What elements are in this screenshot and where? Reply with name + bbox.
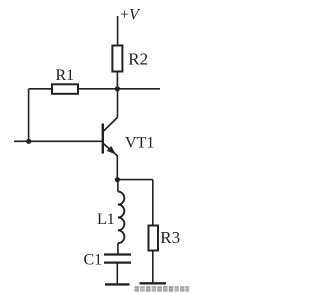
wire: C1 bottom lead: [116, 263, 118, 285]
wire: R3 bottom lead: [152, 251, 154, 284]
wire: collector node horizontal rail: [79, 88, 161, 90]
resistor R3: [149, 226, 159, 251]
resistor R1: [52, 84, 78, 94]
wire: R2 bottom lead: [116, 72, 118, 89]
svg-text:L1: L1: [97, 211, 115, 228]
watermark: [135, 286, 190, 292]
svg-text:VT1: VT1: [125, 135, 154, 152]
power label +V: [120, 7, 141, 24]
capacitor C1: [104, 255, 131, 263]
wire: feedback vertical wire: [28, 89, 30, 142]
ground bar under C1: [105, 283, 130, 285]
resistor R2: [112, 46, 122, 72]
node: junction at base wire: [26, 139, 31, 144]
ground bar under R3: [140, 282, 167, 284]
wire: L1 bottom lead: [117, 243, 119, 254]
svg-text:C1: C1: [84, 251, 103, 268]
svg-text:R3: R3: [160, 228, 180, 247]
transistor VT1: [103, 89, 118, 180]
node: junction at R2 / collector: [115, 86, 120, 91]
inductor L1: [118, 192, 124, 244]
wire: base input wire: [14, 140, 103, 142]
svg-text:R2: R2: [128, 50, 148, 69]
node: junction at emitter: [115, 177, 120, 182]
wire: R3 top lead: [152, 180, 154, 226]
wire: emitter to R3 horizontal: [117, 179, 152, 181]
svg-text:+V: +V: [120, 7, 141, 24]
wire: +V supply lead: [117, 16, 119, 46]
wire: R1 left lead: [29, 88, 52, 90]
wire: emitter to L1 lead: [117, 180, 119, 192]
svg-text:R1: R1: [56, 67, 75, 84]
